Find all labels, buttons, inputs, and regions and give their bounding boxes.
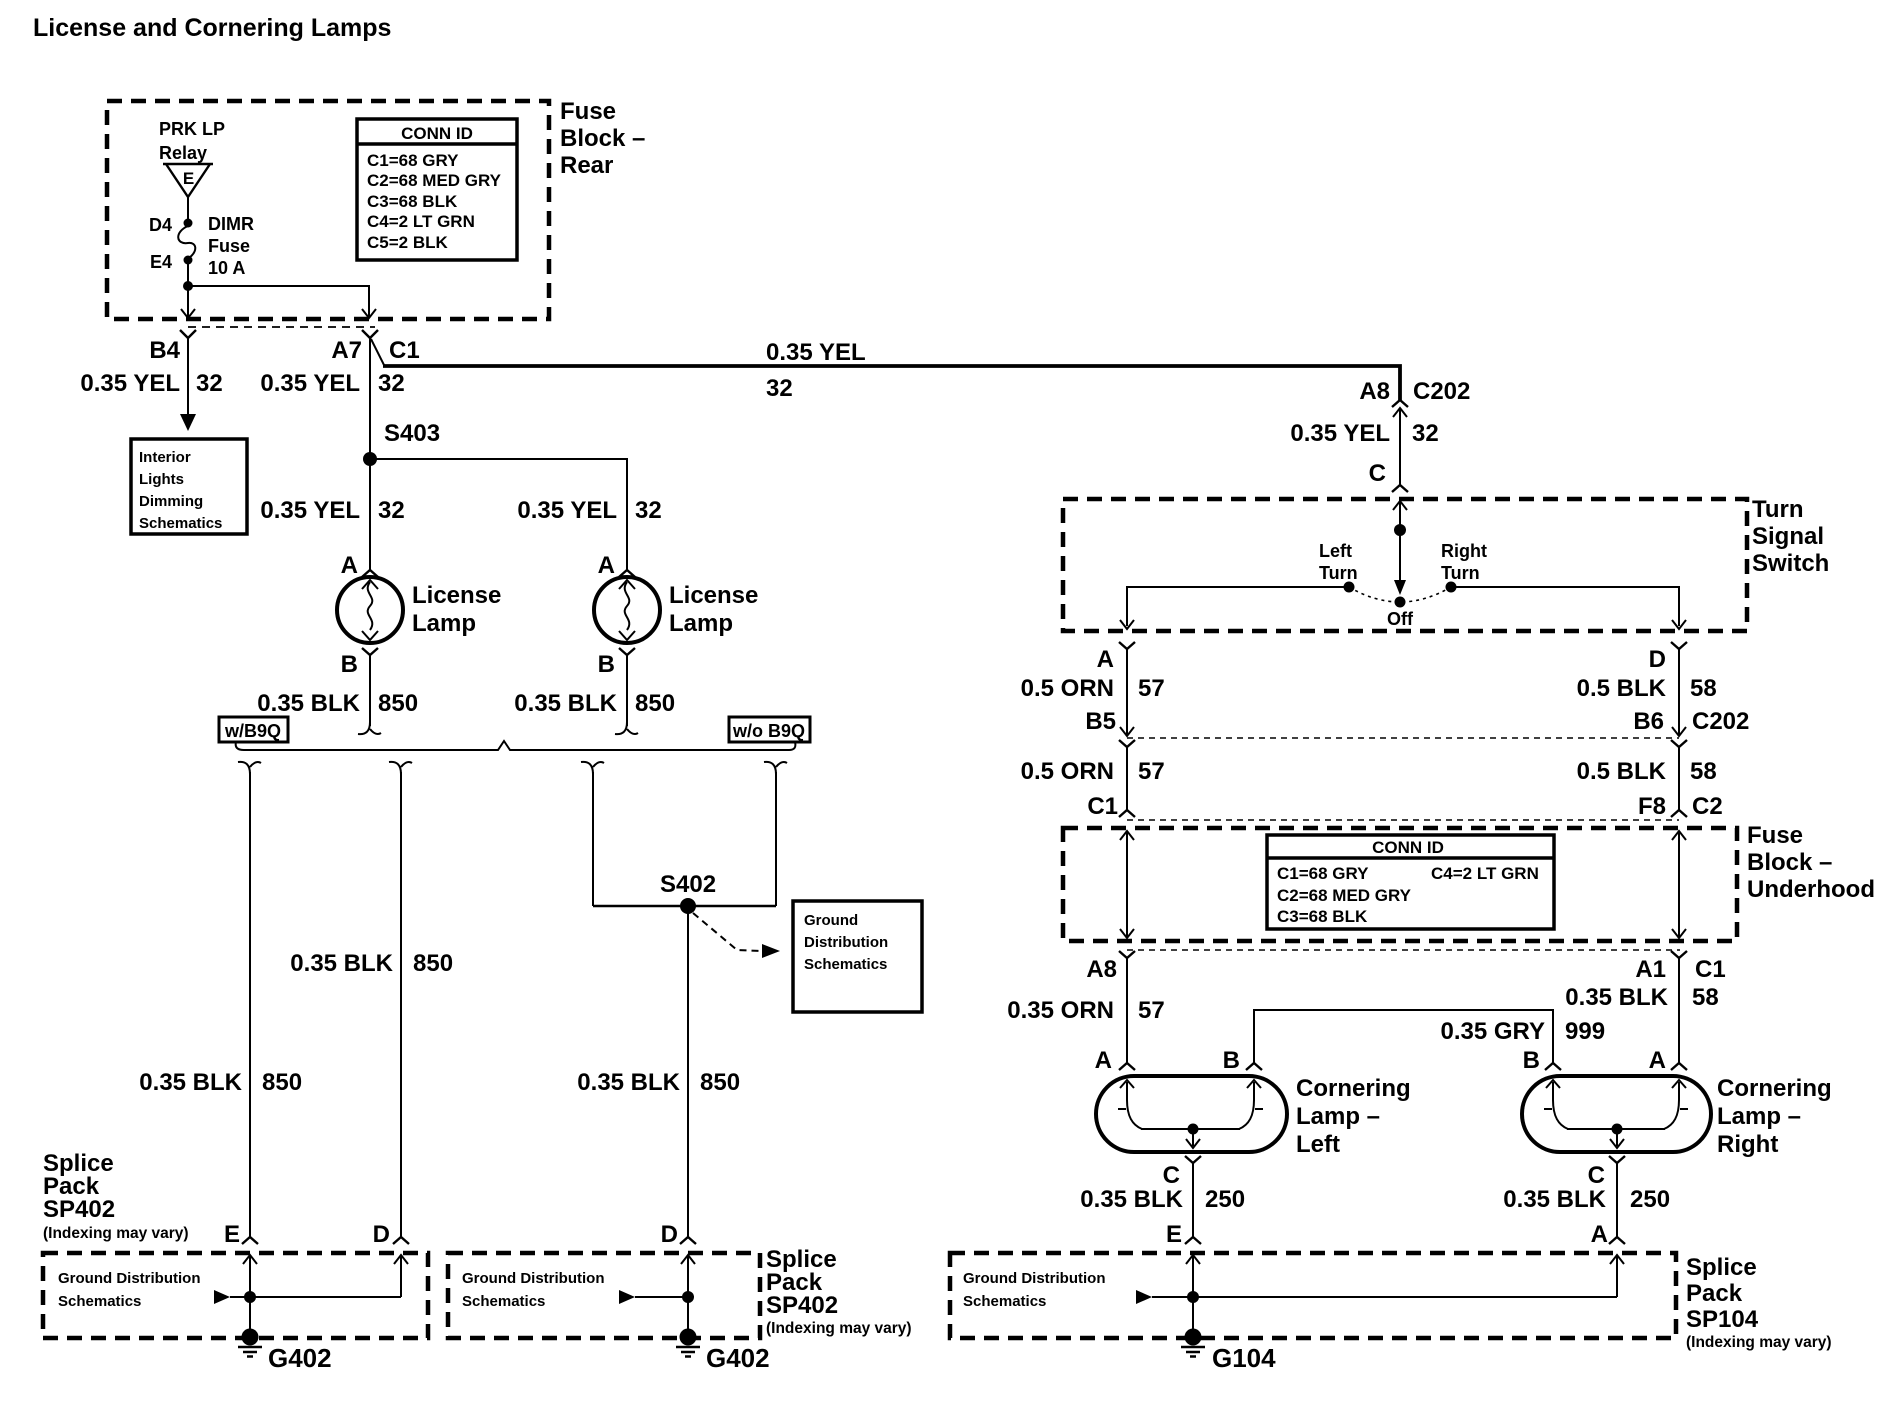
- svg-text:Schematics: Schematics: [58, 1293, 141, 1310]
- svg-text:Relay: Relay: [159, 143, 207, 163]
- wire right turn to D pin: [1451, 587, 1679, 626]
- svg-text:(Indexing may vary): (Indexing may vary): [43, 1225, 189, 1242]
- svg-text:0.35 YEL: 0.35 YEL: [80, 370, 180, 397]
- contact left turn: [1344, 582, 1355, 593]
- svg-text:Schematics: Schematics: [963, 1293, 1046, 1310]
- filament right lamp pin B: [1546, 1080, 1560, 1088]
- wire g4 down to S402: [775, 772, 777, 906]
- svg-text:0.5 ORN: 0.5 ORN: [1021, 758, 1114, 785]
- wire right lamp C to A: [1616, 1163, 1618, 1237]
- fuse block underhood dashed box: [1063, 828, 1737, 941]
- svg-text:Off: Off: [1387, 609, 1414, 629]
- svg-text:PRK LP: PRK LP: [159, 119, 225, 139]
- connector B4: [180, 330, 196, 338]
- svg-text:C3=68 BLK: C3=68 BLK: [1277, 907, 1368, 926]
- svg-text:Switch: Switch: [1752, 550, 1829, 577]
- svg-text:32: 32: [378, 370, 405, 397]
- svg-text:License: License: [412, 582, 501, 609]
- splice S403: [363, 452, 377, 466]
- pin arrow S402 wire inside box2: [681, 1255, 695, 1264]
- harness connector line below fuse block: [1127, 949, 1680, 951]
- connector chevron B5: [1119, 740, 1135, 747]
- wire end hook left lamp: [358, 722, 381, 734]
- filament right lamp pin A: [1672, 1080, 1686, 1088]
- wire B4 down: [187, 338, 189, 416]
- svg-text:Cornering: Cornering: [1296, 1075, 1411, 1102]
- filament left lamp pin A: [1120, 1080, 1134, 1088]
- svg-text:0.35 YEL: 0.35 YEL: [260, 370, 360, 397]
- svg-text:0.35 GRY: 0.35 GRY: [1441, 1018, 1546, 1045]
- wire A8 to left cornering lamp: [1126, 958, 1128, 1063]
- svg-text:0.35 BLK: 0.35 BLK: [514, 690, 617, 717]
- svg-text:Fuse: Fuse: [1747, 822, 1803, 849]
- svg-text:32: 32: [378, 497, 405, 524]
- svg-text:Cornering: Cornering: [1717, 1075, 1832, 1102]
- svg-text:C2: C2: [1692, 793, 1723, 820]
- wire B5 to C1: [1126, 747, 1128, 810]
- svg-text:A: A: [1591, 1221, 1608, 1248]
- wire left turn to A pin: [1127, 587, 1349, 626]
- brace grouping line: [236, 741, 796, 750]
- svg-text:0.35 BLK: 0.35 BLK: [257, 690, 360, 717]
- wire SP104 horizontal: [1152, 1296, 1617, 1298]
- connector chevron A1 C1 below fuse block: [1671, 951, 1687, 958]
- svg-text:C2=68 MED GRY: C2=68 MED GRY: [1277, 886, 1412, 905]
- svg-text:0.35 BLK: 0.35 BLK: [139, 1069, 242, 1096]
- svg-text:0.35 BLK: 0.35 BLK: [1080, 1186, 1183, 1213]
- svg-text:Fuse: Fuse: [560, 98, 616, 125]
- ground distribution schematics box right: [793, 901, 922, 1012]
- pin C right cornering lamp: [1609, 1156, 1625, 1163]
- wire branch junction to A7 pin: [188, 286, 369, 317]
- conn id table fuse block rear: [357, 119, 517, 260]
- svg-text:Right: Right: [1441, 541, 1487, 561]
- svg-text:B: B: [598, 651, 615, 678]
- wire S403 down to left lamp: [369, 459, 371, 570]
- svg-text:C1: C1: [1087, 793, 1118, 820]
- wire g2 down to splice pack: [400, 772, 402, 1237]
- filament common left lamp: [1141, 1128, 1240, 1130]
- license lamp left: [337, 577, 403, 643]
- svg-text:Ground Distribution: Ground Distribution: [462, 1270, 604, 1287]
- wire through fuse block left: [1126, 831, 1128, 938]
- svg-text:G402: G402: [706, 1343, 770, 1373]
- pin C left cornering lamp: [1185, 1156, 1201, 1163]
- svg-text:0.35 YEL: 0.35 YEL: [517, 497, 617, 524]
- wire D to C202 inline: [1678, 649, 1680, 736]
- svg-text:Pack: Pack: [1686, 1280, 1743, 1307]
- filament left lamp pin B: [1247, 1080, 1261, 1088]
- svg-text:850: 850: [262, 1069, 302, 1096]
- wire hook top g4: [764, 762, 787, 774]
- splice pack SP104 dashed box: [950, 1253, 1676, 1338]
- svg-text:E: E: [1166, 1221, 1182, 1248]
- svg-text:License and Cornering Lamps: License and Cornering Lamps: [33, 14, 391, 42]
- svg-text:CONN ID: CONN ID: [401, 124, 473, 143]
- connector chevron F8: [1671, 810, 1687, 817]
- filament common right lamp: [1567, 1128, 1665, 1130]
- svg-text:F8: F8: [1638, 793, 1666, 820]
- svg-text:E: E: [224, 1221, 240, 1248]
- conn id table fuse block underhood: [1267, 835, 1554, 929]
- svg-text:0.5 BLK: 0.5 BLK: [1577, 758, 1667, 785]
- svg-text:B4: B4: [149, 337, 180, 364]
- svg-text:850: 850: [413, 950, 453, 977]
- wire A to C202 inline: [1126, 649, 1128, 736]
- svg-text:C: C: [1369, 460, 1386, 487]
- svg-text:Underhood: Underhood: [1747, 876, 1875, 903]
- wire right lamp B down: [626, 655, 628, 726]
- svg-text:C5=2 BLK: C5=2 BLK: [367, 233, 448, 252]
- svg-text:B: B: [341, 651, 358, 678]
- svg-text:Distribution: Distribution: [804, 934, 888, 951]
- wire switch common: [1399, 501, 1401, 592]
- splice pack SP402 dashed box 1: [43, 1253, 428, 1338]
- svg-text:C: C: [1588, 1162, 1605, 1189]
- wire 0.35 GRY between lamps: [1254, 1010, 1553, 1063]
- svg-text:G402: G402: [268, 1343, 332, 1373]
- svg-text:C1: C1: [389, 337, 420, 364]
- pin B left license lamp: [362, 648, 378, 655]
- svg-text:A: A: [598, 552, 615, 579]
- svg-text:A7: A7: [331, 337, 362, 364]
- svg-text:0.35 BLK: 0.35 BLK: [1503, 1186, 1606, 1213]
- svg-text:S402: S402: [660, 871, 716, 898]
- svg-text:CONN ID: CONN ID: [1372, 838, 1444, 857]
- fuse DIMR squiggle: [178, 226, 195, 258]
- svg-text:850: 850: [635, 690, 675, 717]
- svg-text:Turn: Turn: [1319, 563, 1358, 583]
- svg-text:A: A: [1097, 646, 1114, 673]
- connector D below switch: [1671, 642, 1687, 649]
- wire box1 horizontal: [230, 1296, 401, 1298]
- svg-text:32: 32: [766, 375, 793, 402]
- svg-text:Signal: Signal: [1752, 523, 1824, 550]
- svg-text:Turn: Turn: [1441, 563, 1480, 583]
- wire C1 diagonal to long run: [371, 339, 384, 365]
- svg-text:Rear: Rear: [560, 152, 613, 179]
- svg-text:Block –: Block –: [560, 125, 645, 152]
- junction box2: [682, 1291, 694, 1303]
- wire g1 down to splice pack: [249, 772, 251, 1237]
- svg-text:C1=68 GRY: C1=68 GRY: [1277, 864, 1369, 883]
- arrow into interior lights box: [180, 414, 196, 431]
- svg-text:SP402: SP402: [766, 1292, 838, 1319]
- svg-text:License: License: [669, 582, 758, 609]
- svg-text:SP104: SP104: [1686, 1306, 1759, 1333]
- turn signal switch dashed box: [1063, 499, 1747, 631]
- contact right turn: [1446, 582, 1457, 593]
- wire box2 horizontal: [635, 1296, 688, 1298]
- arrow triangle SP104: [1136, 1290, 1152, 1304]
- svg-text:999: 999: [1565, 1018, 1605, 1045]
- svg-text:C3=68 BLK: C3=68 BLK: [367, 192, 458, 211]
- cornering lamp left body: [1096, 1076, 1287, 1152]
- svg-text:0.5 ORN: 0.5 ORN: [1021, 675, 1114, 702]
- svg-text:57: 57: [1138, 675, 1165, 702]
- interior lights dimming schematics box: [131, 439, 247, 534]
- svg-text:250: 250: [1630, 1186, 1670, 1213]
- svg-text:A8: A8: [1359, 378, 1390, 405]
- svg-text:Right: Right: [1717, 1131, 1778, 1158]
- connector A below switch: [1119, 642, 1135, 649]
- pin arrow E inside SP104: [1186, 1255, 1200, 1264]
- dashed pointer S402 to ground distribution schematics: [693, 913, 760, 951]
- wire long 0.35 YEL run to C202: [383, 366, 1400, 400]
- connector chevron B6: [1671, 740, 1687, 747]
- svg-text:Lamp –: Lamp –: [1296, 1103, 1380, 1130]
- svg-text:Schematics: Schematics: [139, 515, 222, 532]
- wire S403 branch to right lamp: [370, 459, 627, 570]
- svg-text:C2=68 MED GRY: C2=68 MED GRY: [367, 171, 502, 190]
- svg-text:57: 57: [1138, 758, 1165, 785]
- svg-text:Left: Left: [1319, 541, 1352, 561]
- wire left lamp B down: [369, 655, 371, 726]
- inline connector C2 dashed: [1127, 819, 1679, 821]
- svg-text:Splice: Splice: [1686, 1254, 1757, 1281]
- wire through fuse block right: [1678, 831, 1680, 938]
- svg-text:Ground: Ground: [804, 912, 858, 929]
- pin arrow g1 inside box1: [243, 1255, 257, 1264]
- junction switch common: [1394, 524, 1406, 536]
- svg-text:w/o B9Q: w/o B9Q: [732, 721, 805, 741]
- svg-text:0.35 BLK: 0.35 BLK: [290, 950, 393, 977]
- svg-text:Fuse: Fuse: [208, 236, 250, 256]
- wire g3 down to S402: [592, 772, 594, 906]
- svg-text:32: 32: [635, 497, 662, 524]
- option tag w/B9Q: [219, 717, 288, 742]
- svg-text:Ground Distribution: Ground Distribution: [963, 1270, 1105, 1287]
- wire S402 down: [687, 906, 689, 1237]
- pin B right license lamp: [619, 648, 635, 655]
- arrow triangle box2: [619, 1290, 635, 1304]
- svg-text:10 A: 10 A: [208, 258, 245, 278]
- svg-text:B5: B5: [1085, 708, 1116, 735]
- wire S402 through box2 to ground: [687, 1255, 689, 1337]
- svg-text:C: C: [1163, 1162, 1180, 1189]
- svg-text:A: A: [1095, 1047, 1112, 1074]
- svg-text:57: 57: [1138, 997, 1165, 1024]
- wire A into SP104: [1616, 1255, 1618, 1297]
- svg-text:B: B: [1223, 1047, 1240, 1074]
- wire A1 to right cornering lamp: [1678, 958, 1680, 1063]
- wire E through SP104 to ground: [1192, 1255, 1194, 1337]
- svg-text:w/B9Q: w/B9Q: [224, 721, 281, 741]
- splice pack SP402 dashed box 2: [448, 1253, 760, 1338]
- wire junction to B4 pin with arrow: [187, 286, 189, 317]
- svg-text:Lights: Lights: [139, 471, 184, 488]
- svg-text:Lamp: Lamp: [669, 610, 733, 637]
- svg-text:0.35 YEL: 0.35 YEL: [260, 497, 360, 524]
- svg-text:Turn: Turn: [1752, 496, 1804, 523]
- svg-text:C1=68 GRY: C1=68 GRY: [367, 151, 459, 170]
- svg-text:0.35 YEL: 0.35 YEL: [1290, 420, 1390, 447]
- svg-text:58: 58: [1690, 675, 1717, 702]
- svg-text:SP402: SP402: [43, 1196, 115, 1223]
- svg-text:0.35 BLK: 0.35 BLK: [577, 1069, 680, 1096]
- ground node G402 right: [680, 1329, 697, 1346]
- svg-text:A: A: [1649, 1047, 1666, 1074]
- svg-text:A: A: [341, 552, 358, 579]
- wire relay to D4: [187, 197, 189, 222]
- svg-text:Schematics: Schematics: [804, 956, 887, 973]
- wire hook top g3: [581, 762, 604, 774]
- svg-text:Ground Distribution: Ground Distribution: [58, 1270, 200, 1287]
- pin arrow C inside switch: [1393, 501, 1407, 510]
- svg-text:A8: A8: [1086, 956, 1117, 983]
- inline connector C202 dashed: [1127, 737, 1679, 739]
- pin arrow A inside SP104: [1610, 1255, 1624, 1264]
- node D4: [184, 219, 193, 228]
- svg-text:C202: C202: [1692, 708, 1749, 735]
- wire g2 into box1: [400, 1255, 402, 1297]
- svg-text:850: 850: [378, 690, 418, 717]
- svg-text:S403: S403: [384, 420, 440, 447]
- contact off: [1395, 597, 1406, 608]
- svg-text:0.35 YEL: 0.35 YEL: [766, 339, 866, 366]
- svg-text:850: 850: [700, 1069, 740, 1096]
- fuse block rear dashed box: [107, 101, 549, 319]
- wire E4 down to junction: [187, 260, 189, 286]
- svg-text:D: D: [373, 1221, 390, 1248]
- svg-text:E4: E4: [150, 252, 172, 272]
- svg-text:0.35 ORN: 0.35 ORN: [1007, 997, 1114, 1024]
- svg-text:Block –: Block –: [1747, 849, 1832, 876]
- wire C202 to C: [1399, 408, 1401, 485]
- svg-text:0.5 BLK: 0.5 BLK: [1577, 675, 1667, 702]
- svg-text:G104: G104: [1212, 1343, 1276, 1373]
- junction node below E4: [183, 281, 193, 291]
- junction SP104: [1187, 1291, 1199, 1303]
- svg-text:D4: D4: [149, 215, 172, 235]
- pin arrow g2 inside box1: [394, 1255, 408, 1264]
- svg-text:C4=2 LT GRN: C4=2 LT GRN: [367, 212, 475, 231]
- svg-text:A1: A1: [1635, 956, 1666, 983]
- wire hook top g1: [238, 762, 261, 774]
- arrow switch wiper: [1394, 580, 1406, 595]
- svg-text:D: D: [1649, 646, 1666, 673]
- svg-text:DIMR: DIMR: [208, 214, 254, 234]
- wire left lamp C to E: [1192, 1163, 1194, 1237]
- svg-text:Lamp –: Lamp –: [1717, 1103, 1801, 1130]
- wire A7 down to S403: [369, 338, 371, 459]
- svg-text:Schematics: Schematics: [462, 1293, 545, 1310]
- svg-text:B6: B6: [1633, 708, 1664, 735]
- wire S402 horizontal: [593, 905, 776, 907]
- svg-text:C202: C202: [1413, 378, 1470, 405]
- svg-text:32: 32: [196, 370, 223, 397]
- svg-text:C1: C1: [1695, 956, 1726, 983]
- connector A8 C202: [1392, 400, 1408, 407]
- connector chevron C1: [1119, 810, 1135, 817]
- svg-text:58: 58: [1690, 758, 1717, 785]
- pin arrow below C202: [1393, 408, 1407, 417]
- node E4: [184, 256, 193, 265]
- option tag w/o B9Q: [729, 717, 810, 742]
- ground node G104: [1185, 1329, 1202, 1346]
- connector chevron A8 below fuse block: [1119, 951, 1135, 958]
- wire hook top g2: [389, 762, 412, 774]
- ground node G402 left: [242, 1329, 259, 1346]
- junction g1 box1: [244, 1291, 256, 1303]
- arrow triangle box1: [214, 1290, 230, 1304]
- connector line below fuse block rear: [188, 326, 375, 328]
- svg-text:58: 58: [1692, 984, 1719, 1011]
- relay PRK LP triangle: [163, 164, 213, 197]
- svg-text:250: 250: [1205, 1186, 1245, 1213]
- svg-text:0.35 BLK: 0.35 BLK: [1565, 984, 1668, 1011]
- wire end hook right lamp: [615, 722, 638, 734]
- svg-text:32: 32: [1412, 420, 1439, 447]
- svg-text:E: E: [183, 169, 194, 188]
- svg-text:D: D: [661, 1221, 678, 1248]
- svg-text:C4=2 LT GRN: C4=2 LT GRN: [1431, 864, 1539, 883]
- license lamp right: [594, 577, 660, 643]
- svg-text:Interior: Interior: [139, 449, 191, 466]
- svg-text:Dimming: Dimming: [139, 493, 203, 510]
- wire B6 to F8: [1678, 747, 1680, 810]
- svg-text:Lamp: Lamp: [412, 610, 476, 637]
- dashed wiper arc: [1349, 587, 1451, 602]
- splice S402: [680, 898, 696, 914]
- svg-text:Left: Left: [1296, 1131, 1340, 1158]
- wire g1 through box1 to ground: [249, 1255, 251, 1337]
- connector A7: [362, 330, 378, 338]
- svg-text:(Indexing may vary): (Indexing may vary): [1686, 1334, 1832, 1351]
- svg-text:B: B: [1523, 1047, 1540, 1074]
- svg-text:(Indexing may vary): (Indexing may vary): [766, 1320, 912, 1337]
- cornering lamp right body: [1522, 1076, 1711, 1152]
